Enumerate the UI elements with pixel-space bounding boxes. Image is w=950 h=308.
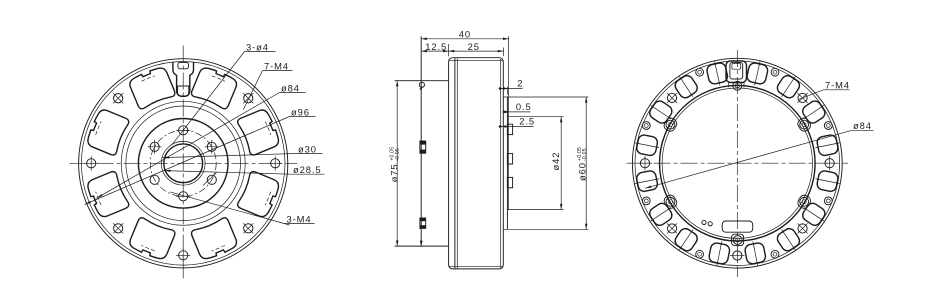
svg-text:7-M4: 7-M4 (264, 60, 289, 71)
rear bottom boss tab (732, 234, 744, 245)
front view bolt-circle centerline arc (96, 192, 102, 205)
rivet hole at 67.5 deg (rear) (824, 122, 832, 130)
front view outer inner-wall circle (81, 62, 285, 266)
rivet hole at 202.5 deg (rear) (696, 250, 704, 258)
rear view magnet-ring inner circle (660, 85, 816, 241)
solder tab 2 (side view) (507, 154, 512, 164)
svg-text:0.5: 0.5 (516, 101, 532, 112)
rotor magnet 10 (672, 224, 701, 255)
rotor magnet 5 (814, 169, 842, 192)
hub hole at 240 deg (front) (150, 175, 159, 184)
front view stator pocket 2 (237, 108, 282, 157)
rotor bell left wall line 2 (456, 58, 458, 268)
rivet hole at 112.5 deg (rear) (824, 197, 832, 205)
svg-text:2: 2 (517, 78, 523, 89)
rear view inner wall circle (662, 88, 812, 238)
front view stator shoulder circle (126, 106, 241, 221)
M4 mounting hole at 45 deg (front) (243, 93, 253, 103)
inner ring screw ear at 300 deg (rear) (662, 116, 678, 133)
rotor bell inner right edge (500, 59, 502, 268)
M4 mounting hole at 45 deg (rear) (797, 93, 807, 103)
leader 3-M4 (front) (285, 223, 315, 225)
inner ring screw ear at 240 deg (rear) (662, 194, 678, 211)
front view bolt-circle centerline arc (212, 245, 225, 251)
side view mounting face line (420, 36, 422, 246)
dimension dia60 line (585, 97, 587, 229)
svg-text:7-M4: 7-M4 (825, 80, 850, 91)
front view bolt-circle centerline arc (212, 76, 225, 82)
dimension 12.5 / 25 (421, 50, 503, 52)
front view outer circle (79, 59, 288, 268)
hub hole at 180 deg (front) (176, 192, 190, 201)
dia75 face end screw blob (top) (419, 82, 424, 87)
front view hub boss circle (138, 119, 228, 209)
side view stator bottom edge (395, 245, 449, 247)
rear view outer circle (632, 58, 842, 268)
rear boss dia60 face (506, 97, 508, 230)
rotor magnet 1 (745, 59, 769, 87)
rear boss dia60 top edge (503, 96, 588, 98)
M4 mounting hole at 180 deg (front) (176, 248, 190, 262)
rear bottom clamp screw (733, 236, 742, 245)
rivet hole at 337.5 deg (rear) (696, 68, 704, 76)
rivet hole at 247.5 deg (rear) (642, 197, 650, 205)
slash through hub hole 120deg (203, 173, 217, 186)
rear label window (722, 221, 753, 232)
dia75 face end arrow (bottom) (420, 241, 423, 246)
leader dia96 (front) (290, 116, 316, 118)
rear vent hole 1 (702, 220, 706, 224)
svg-text:ø28.5: ø28.5 (293, 164, 321, 175)
rotor magnet 3 (798, 97, 829, 126)
svg-text:3-ø4: 3-ø4 (246, 41, 269, 52)
svg-text:ø42: ø42 (550, 152, 561, 171)
rotor magnet 16 (705, 59, 729, 87)
rotor bell inner bottom edge (450, 265, 503, 267)
solder tab 3 (side view) (507, 177, 512, 187)
leader dia30 (front) (297, 153, 323, 155)
front view bolt-circle centerline arc (96, 122, 102, 135)
front view bolt-circle centerline arc (141, 76, 154, 82)
rivet hole at 292.5 deg (rear) (642, 122, 650, 130)
rear vent hole 2 (708, 222, 712, 226)
rear boss dia60 bottom edge (503, 228, 588, 230)
front view pocket-ring inner circle (121, 101, 245, 225)
rotor magnet 15 (672, 71, 701, 102)
leader dia28.5 (front) (292, 173, 325, 175)
front view stator pocket 5 (128, 217, 177, 262)
dimension 0.5 (503, 111, 531, 113)
svg-text:2.5: 2.5 (519, 116, 535, 127)
svg-text:ø30: ø30 (298, 143, 317, 154)
rear view vertical centerline (736, 50, 738, 277)
svg-text:ø96: ø96 (291, 106, 310, 117)
svg-text:-0.05: -0.05 (395, 148, 401, 161)
M4 mounting hole at 270 deg (front) (84, 156, 98, 170)
cable exit inner window (front view) (178, 62, 189, 68)
cable exit bottom pocket (front view) (178, 86, 189, 96)
front view bolt-circle centerline arc (265, 192, 271, 205)
rotor bell outline (side view) (449, 58, 504, 269)
hub hole at 0 deg (front) (176, 126, 190, 135)
hub hole at 300 deg (front) (148, 140, 162, 154)
rotor magnet 13 (633, 134, 661, 157)
front view stator pocket 6 (85, 170, 130, 219)
svg-text:ø84: ø84 (853, 120, 872, 131)
M4 mounting hole at 90 deg (rear) (822, 156, 836, 170)
front view bore circle outer (161, 141, 205, 185)
rear view horizontal centerline (627, 162, 849, 164)
front view stator pocket 1 (190, 65, 239, 110)
leader 3-Ø4 (245, 51, 276, 53)
svg-text:25: 25 (468, 41, 480, 52)
side view flange screw section upper (420, 141, 426, 153)
M4 mounting hole at 90 deg (front) (268, 156, 282, 170)
rotor bell inner top edge (450, 59, 503, 61)
dimension 2 (boss thickness) (506, 87, 508, 95)
rotor magnet 12 (633, 169, 661, 192)
front view bolt-circle centerline arc (265, 122, 271, 135)
leader dia84 (front) (280, 92, 306, 94)
rear cable housing inner (730, 62, 743, 79)
hub hole at 60 deg (front) (205, 140, 219, 154)
dia75 dimension line (396, 81, 398, 246)
dimension dia42 line (560, 117, 562, 210)
solder tab 1 (side view) (507, 124, 512, 134)
rear view outer wall circle (635, 61, 840, 266)
front view bore circle (164, 144, 203, 183)
M4 mounting hole at 135 deg (rear) (797, 223, 807, 233)
rear cable housing outer (726, 61, 747, 83)
rotor magnet 6 (798, 200, 829, 229)
cable exit slot (front view, top) (173, 62, 194, 96)
rear cable clamp screw (top) (733, 81, 742, 90)
rotor bell left wall line 1 (454, 58, 456, 268)
front view stator pocket 4 (190, 217, 239, 262)
rear cable housing window (732, 63, 741, 69)
rotor magnet 11 (645, 200, 676, 229)
hub hole at 120 deg (front) (207, 175, 216, 184)
rear step dia42 top edge (507, 116, 563, 118)
inner ring screw ear at 60 deg (rear) (796, 116, 812, 133)
rotor magnet 8 (744, 240, 767, 268)
svg-text:ø84: ø84 (281, 82, 300, 93)
M4 mounting hole at 225 deg (rear) (667, 223, 677, 233)
rotor magnet 9 (708, 240, 731, 268)
rotor magnet 7 (774, 224, 803, 255)
svg-text:12.5: 12.5 (425, 41, 447, 52)
M4 mounting hole at 270 deg (rear) (638, 156, 652, 170)
side view stator top edge (395, 80, 449, 82)
svg-text:ø60: ø60 (576, 162, 587, 181)
dimension 40 (448, 44, 450, 56)
M4 mounting hole at 135 deg (front) (243, 223, 253, 233)
leader 7-M4 (front) (263, 70, 293, 72)
rear step dia42 face / 40mm extension line (508, 36, 510, 209)
front view horizontal centerline (70, 162, 298, 164)
M4 mounting hole at 225 deg (front) (113, 223, 123, 233)
rivet hole at 157.5 deg (rear) (771, 250, 779, 258)
svg-text:ø75: ø75 (389, 164, 400, 183)
front view bolt-circle centerline arc (141, 245, 154, 251)
inner ring screw ear at 120 deg (rear) (796, 194, 812, 211)
M4 mounting hole at 315 deg (rear) (667, 93, 677, 103)
front view hub bolt circle (dashed) (150, 130, 216, 196)
rear cable housing side walls (728, 83, 730, 88)
dimension 2.5 (499, 126, 534, 128)
front view vertical centerline (182, 46, 184, 282)
rivet hole at 22.5 deg (rear) (771, 68, 779, 76)
front view stator pocket 3 (237, 170, 282, 219)
front view stator pocket 7 (85, 108, 130, 157)
M4 mounting hole at 315 deg (front) (113, 93, 123, 103)
rotor magnet 2 (774, 71, 803, 102)
rotor magnet 4 (814, 134, 842, 157)
svg-text:-0.05: -0.05 (582, 148, 588, 161)
front view stator pocket 8 (128, 65, 177, 110)
rotor magnet 14 (645, 97, 676, 126)
leader 7-M4 (rear) (823, 89, 849, 91)
side view flange screw section lower (420, 218, 426, 228)
svg-text:3-M4: 3-M4 (287, 213, 312, 224)
svg-text:40: 40 (459, 29, 471, 40)
rear step dia42 bottom edge (507, 209, 563, 211)
leader dia84 (rear) (852, 129, 874, 131)
M4 mounting hole at 180 deg (rear) (730, 248, 744, 262)
